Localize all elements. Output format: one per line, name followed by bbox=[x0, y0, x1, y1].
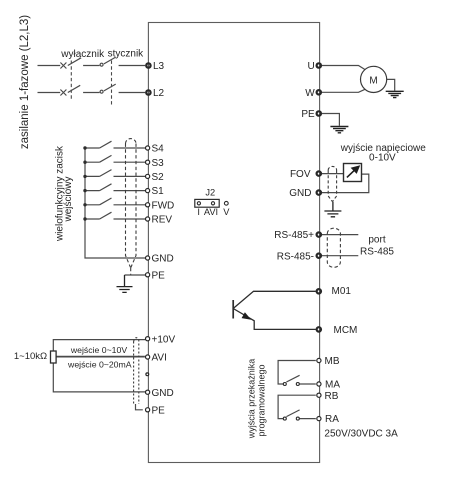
svg-text:W: W bbox=[305, 88, 315, 99]
svg-text:zasilanie 1-fazowe (L2,L3): zasilanie 1-fazowe (L2,L3) bbox=[19, 15, 31, 149]
svg-text:PE: PE bbox=[301, 109, 315, 120]
svg-text:0-10V: 0-10V bbox=[369, 153, 396, 164]
svg-text:port: port bbox=[368, 235, 385, 246]
svg-text:FWD: FWD bbox=[152, 200, 175, 211]
svg-text:GND: GND bbox=[152, 388, 174, 399]
svg-text:S1: S1 bbox=[152, 186, 165, 197]
svg-text:S3: S3 bbox=[152, 158, 165, 169]
svg-text:RS-485: RS-485 bbox=[360, 247, 394, 258]
svg-text:RS-485+: RS-485+ bbox=[274, 230, 314, 241]
svg-text:GND: GND bbox=[152, 254, 174, 265]
svg-text:MCM: MCM bbox=[334, 325, 358, 336]
svg-text:AVI: AVI bbox=[152, 353, 167, 364]
svg-text:GND: GND bbox=[289, 188, 311, 199]
svg-text:M01: M01 bbox=[332, 286, 352, 297]
svg-text:S4: S4 bbox=[152, 144, 165, 155]
svg-text:S2: S2 bbox=[152, 172, 165, 183]
svg-text:M: M bbox=[369, 75, 377, 86]
svg-text:MB: MB bbox=[325, 356, 340, 367]
svg-text:wejściowy: wejściowy bbox=[63, 176, 74, 222]
svg-text:I: I bbox=[197, 207, 200, 217]
svg-text:J2: J2 bbox=[205, 187, 215, 197]
svg-text:REV: REV bbox=[152, 215, 173, 226]
svg-text:PE: PE bbox=[152, 270, 166, 281]
svg-text:wejście 0~20mA: wejście 0~20mA bbox=[67, 359, 132, 369]
svg-text:L3: L3 bbox=[153, 61, 165, 72]
svg-text:RB: RB bbox=[325, 391, 339, 402]
svg-text:U: U bbox=[307, 61, 314, 72]
svg-text:wyłącznik: wyłącznik bbox=[60, 49, 105, 60]
svg-text:FOV: FOV bbox=[290, 169, 311, 180]
svg-text:stycznik: stycznik bbox=[108, 48, 145, 59]
svg-text:L2: L2 bbox=[153, 88, 165, 99]
svg-text:MA: MA bbox=[325, 380, 340, 391]
svg-text:PE: PE bbox=[152, 405, 166, 416]
svg-text:AVI: AVI bbox=[204, 207, 218, 217]
svg-text:programowalnego: programowalnego bbox=[257, 364, 267, 436]
svg-text:wejście 0~10V: wejście 0~10V bbox=[70, 345, 127, 355]
svg-text:RS-485-: RS-485- bbox=[277, 251, 314, 262]
svg-text:1~10kΩ: 1~10kΩ bbox=[14, 351, 47, 362]
svg-text:RA: RA bbox=[325, 414, 339, 425]
svg-text:250V/30VDC 3A: 250V/30VDC 3A bbox=[324, 428, 398, 439]
svg-text:wyjścia przekaźnika: wyjścia przekaźnika bbox=[247, 359, 257, 440]
svg-text:+10V: +10V bbox=[152, 334, 176, 345]
svg-text:V: V bbox=[223, 207, 230, 217]
